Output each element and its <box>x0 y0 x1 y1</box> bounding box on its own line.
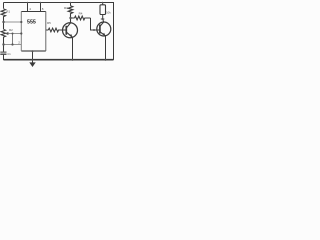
svg-text:2: 2 <box>18 40 20 44</box>
svg-text:R4: R4 <box>79 11 83 15</box>
svg-text:R2: R2 <box>9 28 13 32</box>
svg-text:555: 555 <box>27 19 36 25</box>
svg-text:R1: R1 <box>6 9 10 13</box>
svg-text:R3: R3 <box>64 6 68 10</box>
svg-text:C1: C1 <box>7 52 11 56</box>
svg-text:8: 8 <box>42 7 44 11</box>
svg-text:10k: 10k <box>106 10 111 14</box>
svg-text:R5: R5 <box>47 21 51 25</box>
svg-text:4: 4 <box>29 7 31 11</box>
